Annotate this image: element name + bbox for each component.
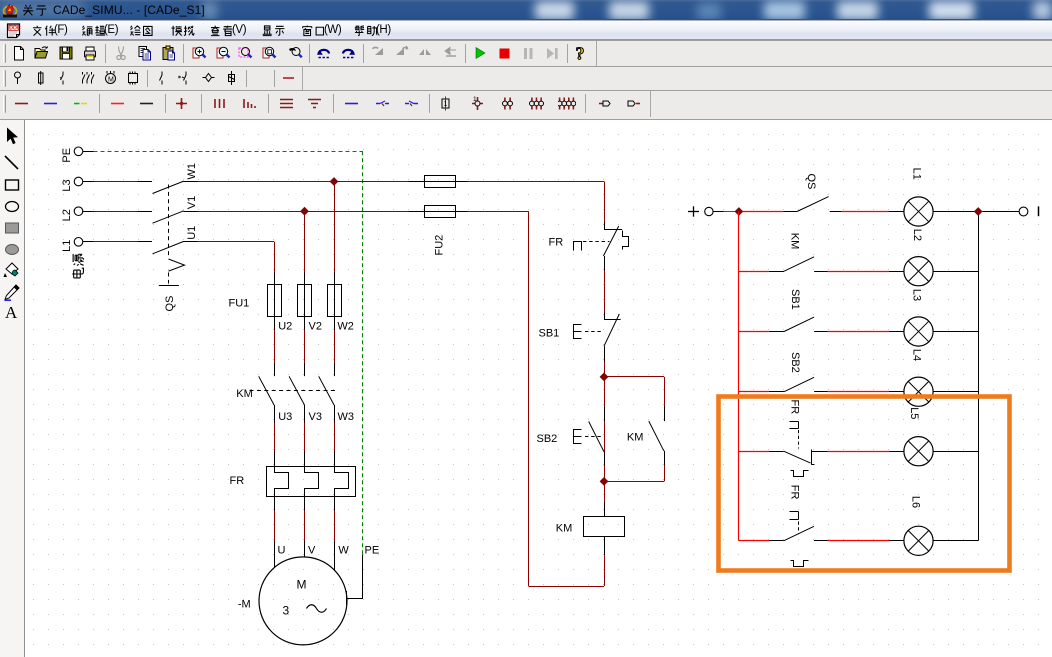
svg-text:M: M <box>108 77 114 84</box>
svg-text:L5: L5 <box>908 407 920 419</box>
svg-text:1: 1 <box>473 96 477 103</box>
svg-text:L2: L2 <box>61 209 73 221</box>
svg-text:V2: V2 <box>309 321 322 333</box>
svg-text:1: 1 <box>444 101 448 108</box>
svg-text:PE: PE <box>61 148 73 163</box>
svg-text:KM: KM <box>556 523 573 535</box>
svg-text:FR: FR <box>549 237 564 249</box>
svg-text:U3: U3 <box>278 411 292 423</box>
svg-text:FR: FR <box>230 475 245 487</box>
svg-text:DOC: DOC <box>9 26 21 32</box>
svg-text:W1: W1 <box>186 163 198 180</box>
svg-text:KM: KM <box>789 233 801 250</box>
svg-text:SB1: SB1 <box>789 289 801 310</box>
svg-text:L1: L1 <box>61 240 73 252</box>
svg-text:3: 3 <box>283 604 290 618</box>
svg-text:W: W <box>338 545 349 557</box>
svg-text:KM: KM <box>627 432 644 444</box>
svg-text:L2: L2 <box>911 229 923 241</box>
svg-text:FR: FR <box>789 400 801 415</box>
svg-text:?: ? <box>576 45 585 62</box>
svg-text:U1: U1 <box>186 226 198 240</box>
svg-text:KM: KM <box>236 388 253 400</box>
svg-text:U2: U2 <box>278 321 292 333</box>
svg-text:M: M <box>297 578 307 592</box>
svg-text:W2: W2 <box>337 321 354 333</box>
svg-text:L3: L3 <box>911 289 923 301</box>
svg-text:L1: L1 <box>911 168 923 180</box>
svg-text:V3: V3 <box>309 411 322 423</box>
svg-text:L3: L3 <box>61 179 73 191</box>
svg-text:U: U <box>278 545 286 557</box>
svg-text:FR: FR <box>789 485 801 500</box>
svg-text:FU2: FU2 <box>434 235 446 256</box>
svg-text:W3: W3 <box>338 411 355 423</box>
svg-text:SB2: SB2 <box>789 352 801 373</box>
svg-text:V: V <box>308 545 316 557</box>
svg-text:L6: L6 <box>910 496 922 508</box>
svg-text:QS: QS <box>164 296 176 312</box>
svg-text:PE: PE <box>365 545 380 557</box>
svg-text:A: A <box>5 303 18 320</box>
svg-text:V1: V1 <box>186 196 198 209</box>
svg-text:SB1: SB1 <box>539 328 560 340</box>
svg-text:SB2: SB2 <box>537 433 558 445</box>
svg-text:L4: L4 <box>911 349 923 361</box>
svg-text:FU1: FU1 <box>229 298 250 310</box>
svg-text:-M: -M <box>238 599 251 611</box>
svg-text:QS: QS <box>805 174 817 190</box>
